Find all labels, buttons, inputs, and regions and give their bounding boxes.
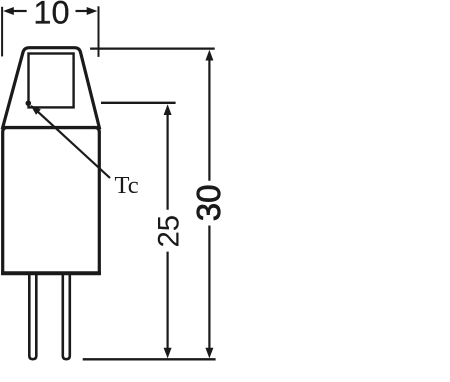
svg-text:10: 10 (33, 0, 69, 30)
svg-text:25: 25 (153, 215, 186, 248)
svg-text:30: 30 (190, 185, 227, 222)
svg-text:Tc: Tc (115, 172, 139, 199)
